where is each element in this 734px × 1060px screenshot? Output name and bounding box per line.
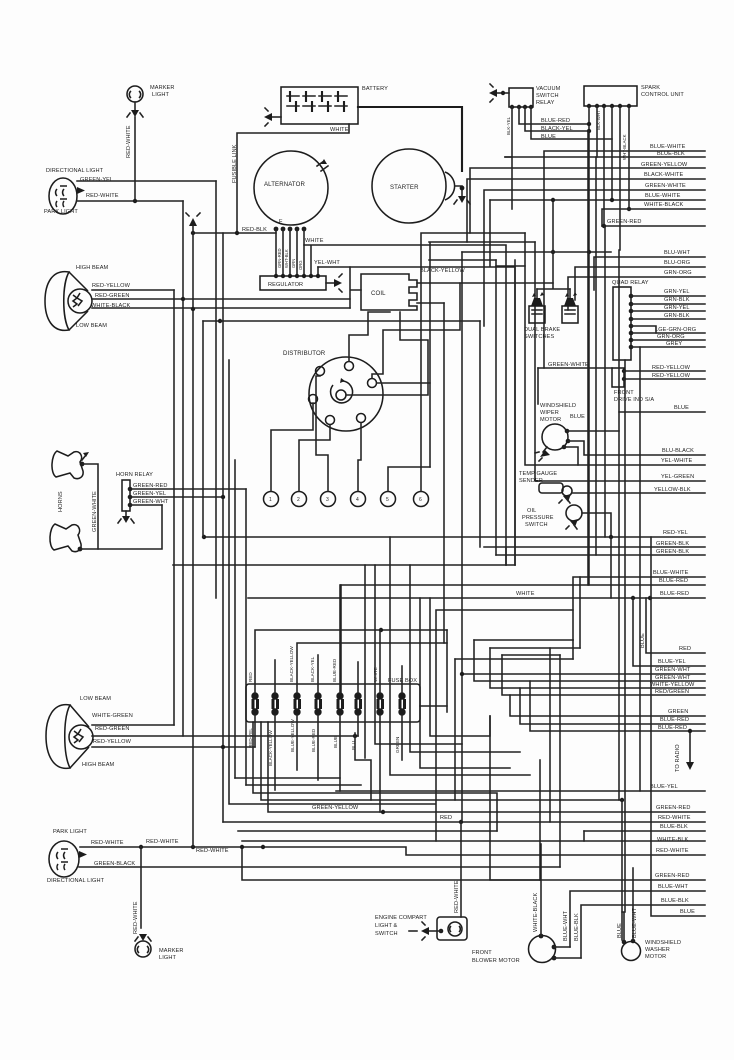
wire GREEN-RED bus [602, 219, 705, 228]
wire vbus x235 [234, 460, 236, 778]
svg-text:PARK LIGHT: PARK LIGHT [44, 209, 78, 215]
svg-text:QUAD RELAY: QUAD RELAY [612, 280, 649, 286]
wire grid v x420 [420, 598, 510, 768]
svg-text:BLUE-WHITE: BLUE-WHITE [653, 570, 689, 576]
wire y252 [462, 251, 611, 253]
wire grid h small links [579, 577, 581, 648]
wire BLUE-RED from vacuum relay [519, 107, 589, 124]
svg-text:RED-WHITE: RED-WHITE [454, 880, 460, 913]
svg-text:BLU-BLACK: BLU-BLACK [662, 448, 694, 454]
fuse 8 [398, 692, 406, 715]
wire GREEN-YEL horn relay [130, 491, 225, 499]
svg-text:TO RADIO: TO RADIO [675, 744, 681, 772]
svg-text:RED-WHITE: RED-WHITE [196, 848, 229, 854]
svg-text:5: 5 [386, 497, 389, 503]
svg-text:3: 3 [326, 497, 329, 503]
fuse 6 [354, 692, 362, 715]
wire RED-WHITE bottom long (park light feed) [80, 839, 705, 855]
fuse 4 [314, 692, 322, 715]
svg-text:GREEN-RED: GREEN-RED [655, 873, 689, 879]
svg-text:GREEN-YEL: GREEN-YEL [80, 177, 113, 183]
svg-text:LIGHT: LIGHT [159, 955, 176, 961]
svg-text:RED-WHITE: RED-WHITE [146, 839, 179, 845]
fuse bottom wires [248, 715, 402, 812]
wire WHITE-BLACK upper lamp [92, 307, 350, 309]
junction dots on left bus [191, 307, 195, 311]
wire RED-YELLOW ind 1 [624, 365, 705, 371]
svg-text:GREEN-YELLOW: GREEN-YELLOW [312, 805, 359, 811]
wire vbus x246 [245, 489, 247, 785]
fuse top feed wires [248, 585, 447, 712]
wire BLUE-WHITE bus [544, 144, 705, 368]
wire BLUE-BLK bottom bus [238, 824, 705, 831]
wire BLUE-BLK bus [505, 151, 705, 157]
svg-text:CONTROL UNIT: CONTROL UNIT [641, 92, 684, 98]
svg-text:GRN-BLK: GRN-BLK [664, 297, 690, 303]
wire YEL-WHITE bus [525, 233, 705, 465]
wire plug 1 [271, 403, 313, 491]
svg-text:RELAY: RELAY [536, 100, 555, 106]
svg-text:WHITE: WHITE [330, 127, 349, 133]
svg-text:FRONT: FRONT [472, 950, 492, 956]
svg-text:BLUE-RED: BLUE-RED [332, 658, 337, 682]
svg-text:BLACK-YELLOW: BLACK-YELLOW [289, 646, 294, 682]
svg-text:BLACK-WHITE: BLACK-WHITE [644, 172, 683, 178]
vacuum relay terminals [506, 105, 533, 135]
svg-text:LGE-GRN-ORG: LGE-GRN-ORG [655, 327, 696, 333]
svg-text:RED-YELLOW: RED-YELLOW [93, 739, 132, 745]
wire coil feed from left [350, 267, 361, 308]
svg-text:1: 1 [269, 497, 272, 503]
svg-text:RED: RED [248, 672, 253, 682]
svg-text:WASHER: WASHER [645, 947, 670, 953]
svg-text:6: 6 [419, 497, 422, 503]
wire grid v x640 [639, 347, 641, 791]
wire GREEN-RED horn relay [130, 483, 246, 489]
svg-text:HIGH BEAM: HIGH BEAM [82, 762, 115, 768]
wire vbus x515 [514, 260, 516, 565]
wire battery positive to starter (heavy) [358, 107, 462, 171]
wire vbus x506 [505, 547, 507, 565]
svg-text:BLUE: BLUE [570, 414, 585, 420]
svg-text:GREEN-WHITE: GREEN-WHITE [645, 183, 686, 189]
wire vbus x174 [173, 290, 175, 725]
wire wiper stub [564, 447, 578, 465]
svg-text:DRIVE IND S/A: DRIVE IND S/A [614, 397, 654, 403]
svg-text:FUSIBLE LINK: FUSIBLE LINK [232, 144, 238, 183]
svg-text:RED-YELLOW: RED-YELLOW [92, 283, 131, 289]
svg-text:BLUE-YEL: BLUE-YEL [658, 659, 686, 665]
wire RED-BLK to alternator field [191, 227, 276, 235]
svg-text:BLACK-YELLOW: BLACK-YELLOW [420, 268, 465, 274]
svg-text:GRN-YEL: GRN-YEL [664, 305, 690, 311]
wire vbus x229 [229, 360, 435, 804]
svg-text:LOW BEAM: LOW BEAM [80, 696, 111, 702]
wire grid v x390 [390, 537, 530, 775]
wire vbus x341 fuse5 feed [340, 585, 342, 697]
svg-text:BLUE-BLK: BLUE-BLK [661, 898, 689, 904]
wire grid v x605 [604, 226, 606, 537]
wire YEL-GREEN bus [535, 242, 705, 481]
wire GREEN-YEL from directional light [77, 180, 216, 182]
wire RED / RED-WHITE bottom bus [223, 815, 705, 824]
wire WHITE from regulator [304, 238, 506, 565]
svg-text:BLUE-WHT: BLUE-WHT [658, 884, 688, 890]
wire RED-YEL bus (long) [202, 530, 705, 539]
wire WHITE-YELLOW bus [490, 648, 705, 688]
svg-text:GRN: GRN [291, 259, 296, 268]
wire YELLOW-BLK from sender [572, 487, 705, 493]
svg-text:BLACK-YEL: BLACK-YEL [541, 126, 573, 132]
wire BLUE-WHT washer [632, 868, 638, 941]
svg-text:RED-BLK: RED-BLK [242, 227, 267, 233]
svg-text:BLU-WHT: BLU-WHT [664, 250, 691, 256]
svg-text:GREEN-WHT: GREEN-WHT [133, 499, 169, 505]
svg-text:LOW BEAM: LOW BEAM [76, 323, 107, 329]
svg-text:VACUUM: VACUUM [536, 86, 561, 92]
REGULATOR box [260, 276, 326, 290]
svg-text:GRN-YEL: GRN-YEL [664, 289, 690, 295]
wire vbus x203 [202, 321, 204, 537]
svg-text:DIRECTIONAL LIGHT: DIRECTIONAL LIGHT [47, 878, 105, 884]
wire horizontal y321 [203, 320, 480, 322]
wire GREEN-BLK bus 2 [496, 549, 705, 555]
wire grid v x375 [375, 565, 462, 744]
ground at vacuum relay left [489, 84, 509, 102]
svg-text:MOTOR: MOTOR [540, 417, 561, 423]
wire plug 4 [358, 423, 361, 491]
distributor plug terminals 1-6 [264, 492, 429, 507]
wire RED-GREEN lower lamp [92, 734, 358, 738]
wire WHITE-BLACK bus [602, 202, 705, 226]
wire GREEN-WHT horn relay [130, 499, 169, 505]
svg-text:GREY: GREY [666, 341, 682, 347]
svg-text:RED-WHITE: RED-WHITE [86, 193, 119, 199]
wire TO RADIO [675, 729, 694, 772]
svg-text:DUAL BRAKE: DUAL BRAKE [524, 327, 560, 333]
svg-text:BLACK-YELLOW: BLACK-YELLOW [268, 730, 273, 766]
wire grid v x588 quad left [587, 131, 589, 585]
svg-text:BLUE-WHT: BLUE-WHT [563, 911, 569, 941]
wire BLU-BLACK wiper to right [568, 441, 705, 455]
svg-text:GREEN-BLK: GREEN-BLK [656, 541, 689, 547]
fuse box right side links [420, 705, 447, 707]
svg-text:BLUE: BLUE [617, 923, 623, 938]
svg-text:GREEN-RED: GREEN-RED [607, 219, 641, 225]
svg-text:GREEN-RED: GREEN-RED [656, 805, 690, 811]
ground at regulator right [326, 274, 342, 292]
svg-text:COIL: COIL [371, 290, 386, 297]
wire GREEN bus [510, 695, 705, 716]
fuse 7 [376, 692, 384, 715]
wire RED-YELLOW ind 2 [624, 373, 705, 379]
svg-text:GRN-RED: GRN-RED [277, 248, 282, 268]
svg-text:PARK LIGHT: PARK LIGHT [53, 829, 87, 835]
svg-text:GREEN-RED: GREEN-RED [133, 483, 167, 489]
wire horn 1 drop [82, 464, 98, 549]
wire GREEN-WHT bus 1 [462, 667, 705, 674]
wire distributor terminal 7 to plug [372, 283, 460, 378]
wire BLUE-WHITE lower bus [573, 570, 705, 640]
wire y260 [429, 259, 496, 261]
svg-text:RED-WHITE: RED-WHITE [656, 848, 689, 854]
svg-text:SWITCH: SWITCH [536, 93, 559, 99]
quad relay output wires [629, 289, 705, 349]
ground at horn relay [118, 511, 134, 523]
svg-text:GREEN: GREEN [668, 709, 688, 715]
svg-text:SWITCH: SWITCH [375, 931, 398, 937]
FRONT DRIVE IND S/A [612, 368, 654, 403]
wire coil lower to right [417, 302, 444, 304]
svg-text:SWITCHES: SWITCHES [524, 334, 554, 340]
svg-text:WHT-BLK: WHT-BLK [284, 249, 289, 268]
wire RED-YELLOW upper lamp [92, 289, 174, 291]
wire plug 5 [377, 383, 430, 491]
wire BLUE-RED bus 3 [520, 688, 705, 724]
svg-text:BLUE-WHT: BLUE-WHT [632, 908, 638, 938]
wire from oil pressure switch to RED-YEL bus [582, 513, 611, 537]
wire GREEN-RED lower bus [490, 716, 705, 880]
svg-text:REGULATOR: REGULATOR [268, 282, 303, 288]
wire vbus x444 [443, 303, 445, 643]
svg-text:DIRECTIONAL LIGHT: DIRECTIONAL LIGHT [46, 168, 104, 174]
wire WHITE-BLACK blower feed [533, 844, 541, 936]
svg-text:RED-GREEN: RED-GREEN [95, 293, 129, 299]
wire BLUE washer [617, 912, 624, 942]
svg-text:PRESSURE: PRESSURE [522, 515, 554, 521]
svg-text:HIGH BEAM: HIGH BEAM [76, 265, 109, 271]
svg-text:GREEN-WHITE: GREEN-WHITE [548, 362, 589, 368]
svg-text:RED-GREEN: RED-GREEN [95, 726, 129, 732]
svg-text:BLUE-BLK: BLUE-BLK [660, 824, 688, 830]
wire grid v x596 [595, 157, 597, 555]
svg-text:BLACK-YEL: BLACK-YEL [310, 656, 315, 682]
svg-text:GRN-ORG: GRN-ORG [657, 334, 685, 340]
alternator terminals and F label [274, 219, 307, 231]
wire BLUE-RED bus 4 [530, 681, 705, 731]
svg-text:BLUE: BLUE [541, 134, 556, 140]
fuse 5 [336, 692, 344, 715]
wire grid v x584 [583, 831, 585, 841]
wire BLUE vertical label [640, 598, 705, 653]
svg-text:ALTERNATOR: ALTERNATOR [264, 181, 305, 188]
wire RED-WHITE from park light [77, 200, 183, 202]
svg-text:BLUE-RED: BLUE-RED [658, 725, 687, 731]
wire BLUE wiper to right [567, 405, 705, 431]
wire grid v x355 [355, 733, 371, 800]
wire BLUE-RED lower bus [341, 578, 705, 585]
wire RED-GREEN bus [502, 655, 705, 695]
wire vbus x462b [460, 672, 464, 676]
svg-text:BATTERY: BATTERY [362, 86, 388, 92]
wire BLU-WHT bus [594, 250, 705, 290]
svg-text:GREEN: GREEN [395, 737, 400, 753]
wire WHITE-BLK bottom bus [242, 837, 705, 843]
wire grid v x455 [454, 659, 456, 800]
wire BLUE-WHITE 2 bus [645, 193, 681, 199]
wire grid v x625 [624, 360, 626, 912]
svg-text:BLUE: BLUE [333, 736, 338, 748]
wire BLUE from vacuum relay [531, 107, 612, 140]
wire grid v x365 [364, 565, 366, 758]
svg-text:BLUE-YEL: BLUE-YEL [650, 784, 678, 790]
svg-text:WHITE-BLACK: WHITE-BLACK [533, 893, 539, 932]
wire distributor hi-tension to coil [346, 312, 428, 395]
svg-text:WHITE: WHITE [516, 591, 535, 597]
svg-text:YEL-GREEN: YEL-GREEN [661, 474, 694, 480]
wire GRN-ORG bus [568, 270, 705, 310]
svg-text:GRN-BLK: GRN-BLK [664, 313, 690, 319]
svg-text:HORNS: HORNS [58, 491, 64, 512]
wire grid v x619 [618, 250, 620, 800]
high/low beam headlamp (upper) [45, 265, 131, 330]
svg-text:RED-WHITE: RED-WHITE [91, 840, 124, 846]
wire grid v x560 [559, 655, 561, 867]
svg-text:MOTOR: MOTOR [645, 954, 666, 960]
wire GREEN-BLACK park light [79, 866, 560, 868]
wire BLUE-YEL bus [633, 598, 705, 666]
wire grid v x550 [549, 648, 551, 822]
wire GREEN-BLK bus 1 [484, 541, 705, 547]
wire starter bottom bundle 2 [429, 242, 535, 467]
svg-text:RED-YEL: RED-YEL [248, 728, 253, 748]
wire BLUE-WHT blower [554, 911, 570, 947]
alternator to regulator harness wires [274, 229, 320, 278]
wire grid v x573b [572, 640, 574, 659]
wire BLUE-BLK lower bus [581, 898, 705, 958]
svg-text:BLUE: BLUE [680, 909, 695, 915]
svg-text:GREEN-WHT: GREEN-WHT [655, 675, 691, 681]
svg-text:GREEN-WHITE: GREEN-WHITE [92, 491, 98, 532]
svg-text:BLU-ORG: BLU-ORG [664, 260, 690, 266]
wire grid h y640 [474, 639, 573, 641]
wire y266 link [496, 265, 525, 267]
svg-text:BLUE-BLK: BLUE-BLK [574, 913, 580, 941]
svg-text:MARKER: MARKER [150, 85, 175, 91]
svg-text:YELLOW-BLK: YELLOW-BLK [654, 487, 691, 493]
svg-text:MARKER: MARKER [159, 948, 184, 954]
svg-text:WIPER: WIPER [540, 410, 559, 416]
svg-text:RED-WHITE: RED-WHITE [126, 125, 132, 158]
svg-text:WHITE-BLACK: WHITE-BLACK [644, 202, 683, 208]
svg-text:GRN-ORG: GRN-ORG [664, 270, 692, 276]
svg-text:LIGHT: LIGHT [152, 92, 169, 98]
svg-text:DISTRIBUTOR: DISTRIBUTOR [283, 350, 326, 357]
wire vbus x183 [182, 201, 184, 736]
svg-text:GREEN-YELLOW: GREEN-YELLOW [641, 162, 688, 168]
ground at wiper motor [535, 447, 550, 461]
wire mid horizontal [173, 564, 515, 566]
wire starter bottom bundle 1 [421, 233, 525, 491]
svg-text:WINDSHIELD: WINDSHIELD [645, 940, 681, 946]
wire WHITE-GREEN lower lamp [92, 724, 174, 726]
wire plug 2 [299, 425, 330, 491]
svg-text:GREEN-BLACK: GREEN-BLACK [94, 861, 135, 867]
wire RED-YELLOW lower lamp [92, 745, 255, 749]
svg-text:SWITCH: SWITCH [525, 522, 548, 528]
wire grid v x611b [610, 537, 612, 598]
svg-text:BLUE-WHITE: BLUE-WHITE [650, 144, 686, 150]
wire WHITE battery to fusible link [237, 124, 349, 233]
svg-text:WINDSHIELD: WINDSHIELD [540, 403, 576, 409]
svg-text:FRONT: FRONT [614, 390, 634, 396]
wire unlabeled bottom [261, 722, 624, 940]
wire GREEN-WHITE bus [484, 183, 705, 326]
svg-text:BLUE-RED: BLUE-RED [660, 717, 689, 723]
svg-text:BLOWER MOTOR: BLOWER MOTOR [472, 958, 520, 964]
svg-text:RED/GREEN: RED/GREEN [655, 689, 689, 695]
directional light / park light (top left) [44, 168, 119, 215]
fuse 3 [293, 692, 301, 715]
svg-text:GREEN-YEL: GREEN-YEL [133, 491, 166, 497]
svg-text:BLUE-RED: BLUE-RED [541, 118, 570, 124]
wire RED-WHITE engine light feed [454, 822, 461, 917]
wire RED-WHITE marker drop [133, 847, 141, 934]
node arrow at left bus [186, 213, 200, 226]
wire BLACK-YEL from vacuum relay [525, 107, 589, 132]
wire BLUE-YEL bottom bus [336, 784, 705, 791]
svg-text:ENGINE COMPART: ENGINE COMPART [375, 915, 427, 921]
wire BLACK-YEL long drop from vacuum relay [505, 107, 512, 157]
wire grid v x430 [430, 598, 490, 736]
svg-text:SPARK: SPARK [641, 85, 660, 91]
svg-text:RED-YELLOW: RED-YELLOW [652, 373, 691, 379]
wire GREEN-YELLOW bus [470, 162, 705, 233]
wire staircase y793 [253, 722, 497, 831]
svg-text:BLUE: BLUE [674, 405, 689, 411]
svg-text:WHITE: WHITE [305, 238, 324, 244]
svg-text:YEL-WHT: YEL-WHT [314, 260, 340, 266]
wire grid h y655 [502, 654, 560, 656]
wire BLACK-WHITE bus [467, 172, 705, 242]
svg-text:2: 2 [297, 497, 300, 503]
ground below marker light [127, 102, 143, 117]
ground at starter right [454, 186, 470, 204]
marker light (top) [127, 85, 175, 102]
wire GREEN-WHT bus 2 [474, 640, 705, 681]
svg-text:LIGHT &: LIGHT & [375, 923, 398, 929]
fuse 1 [251, 692, 259, 715]
svg-text:ORG: ORG [298, 260, 303, 270]
svg-text:RED-YELLOW: RED-YELLOW [652, 365, 691, 371]
svg-text:WHT-BLACK: WHT-BLACK [622, 134, 627, 160]
svg-text:GREEN-BLK: GREEN-BLK [656, 549, 689, 555]
wire BLUE washer bus [651, 537, 705, 916]
svg-text:WHITE-GREEN: WHITE-GREEN [92, 713, 133, 719]
ground at battery left [264, 108, 281, 126]
svg-text:BLUE-RED: BLUE-RED [660, 591, 689, 597]
svg-text:OIL: OIL [527, 508, 536, 514]
wire RED-GREEN upper lamp [92, 298, 350, 300]
svg-text:BLUE-WHITE: BLUE-WHITE [645, 193, 681, 199]
wire WHITE / BLUE-RED long bus [248, 591, 705, 600]
svg-text:BLUE-BLK: BLUE-BLK [657, 151, 685, 157]
svg-text:RED-YEL: RED-YEL [663, 530, 688, 536]
svg-text:RED-WHITE: RED-WHITE [658, 815, 691, 821]
svg-text:YEL-WHITE: YEL-WHITE [661, 458, 693, 464]
wire distributor top terminal up [349, 312, 390, 361]
svg-text:RED: RED [440, 815, 452, 821]
fuse 2 [271, 692, 279, 715]
svg-text:TEMP GAUGE: TEMP GAUGE [519, 471, 557, 477]
wire plug 3 [316, 376, 328, 491]
wire vbus x223 [222, 233, 224, 822]
svg-text:RED: RED [679, 646, 691, 652]
svg-text:RED-WHITE: RED-WHITE [133, 901, 139, 934]
wire vbus x193 [192, 226, 194, 847]
wire RED-WHITE marker light feed [126, 117, 135, 201]
spark unit drop wires [490, 106, 705, 585]
